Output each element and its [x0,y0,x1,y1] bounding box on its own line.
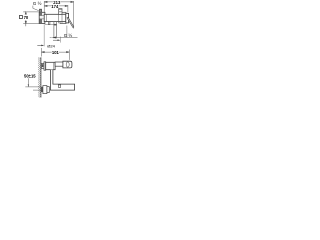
arrow B [53,39,60,41]
elbow centre extension line [33,89,41,91]
body inner line under knob right [61,14,63,23]
extension line left x44.2 [43,1,45,14]
wall hatching [38,56,41,101]
dimension 213 text [53,0,61,4]
extension line 101 left [41,48,43,57]
svg-text:G ½: G ½ [64,32,73,38]
lever arm (side view) [55,62,63,66]
wall elbow outlet dark block [41,87,43,92]
leader vertical riser [66,26,68,38]
svg-text:G ½: G ½ [33,0,42,6]
extension line 101 right [68,50,70,60]
50±15 leader with down arrow [27,78,29,86]
extension line 213 right x73.6 [73,1,75,29]
right escutcheon [60,12,66,23]
svg-text:50±15: 50±15 [24,74,36,79]
spout L profile (side view) [50,70,74,90]
elbow top extension line [25,86,41,88]
square-70 text [19,15,30,20]
side body (cube) [46,62,55,69]
square-70 dimension vertical line with arrows [25,12,26,26]
arrow A [37,44,43,46]
side escutcheon [44,62,46,70]
square-70 dimension extension lines [23,11,39,13]
dimension 213 line [44,1,73,2]
extension line A continuation [43,24,45,46]
wall elbow nut [47,87,49,93]
under-body outlet stub [48,22,50,25]
dimension 174 text [51,4,58,8]
set screw on spout [58,85,60,87]
dimension 101 line [42,51,70,52]
spout tube (front view) [53,22,55,39]
svg-text:101: 101 [52,50,60,55]
wall elbow body [43,86,47,94]
side union on wall [41,64,44,69]
lever end knob [63,61,72,68]
bottom G 1/2 leader line [52,37,77,39]
dimension 101 text [52,50,59,54]
wall surface line [40,57,42,97]
body inner line left [45,14,47,21]
extension line B [60,37,62,43]
diverter knob [59,9,62,15]
spout collar dark band [54,24,57,26]
body [44,14,66,21]
extension line 174 right x67.9 [67,5,69,13]
body inner line under knob left [58,14,60,23]
svg-text:Ø24: Ø24 [47,44,55,49]
cartridge cap right [66,13,69,23]
lever knob inner ellipse [66,62,69,67]
leader for G 1/2 [33,6,39,11]
dimension 174 line [44,5,68,6]
bracket line to spout collar [45,24,54,26]
leader arrowhead [52,37,56,39]
lever handle (front view, diagonal) [67,17,74,27]
svg-text:174: 174 [51,4,59,9]
left escutcheon with union nut [39,12,45,23]
left inlet stub [40,9,42,12]
svg-text:70: 70 [24,15,29,20]
